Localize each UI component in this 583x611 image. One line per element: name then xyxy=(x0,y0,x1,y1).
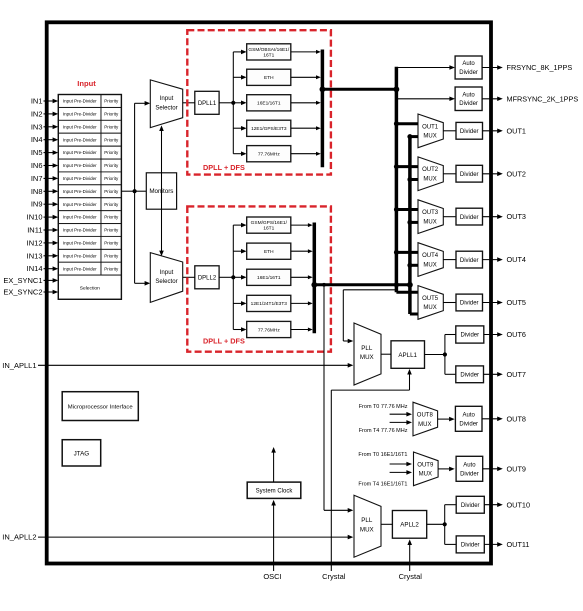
svg-text:Input Pre-Divider: Input Pre-Divider xyxy=(63,150,97,155)
svg-text:From T4 77.76 MHz: From T4 77.76 MHz xyxy=(359,428,408,434)
svg-text:IN6: IN6 xyxy=(31,161,43,170)
svg-text:PLL: PLL xyxy=(361,345,373,352)
svg-text:APLL1: APLL1 xyxy=(398,352,417,359)
svg-text:Divider: Divider xyxy=(460,471,479,477)
svg-text:OUT11: OUT11 xyxy=(507,540,530,549)
svg-text:Divider: Divider xyxy=(459,101,478,107)
svg-text:GSM/OBSAI/16E1/: GSM/OBSAI/16E1/ xyxy=(248,47,289,53)
svg-text:IN4: IN4 xyxy=(31,135,43,144)
svg-text:Priority: Priority xyxy=(104,266,119,271)
svg-text:Input Pre-Divider: Input Pre-Divider xyxy=(63,253,97,258)
svg-text:Priority: Priority xyxy=(104,112,119,117)
svg-text:12E1/GPS/E3T3: 12E1/GPS/E3T3 xyxy=(251,126,287,132)
svg-text:Priority: Priority xyxy=(104,253,119,258)
svg-text:System Clock: System Clock xyxy=(256,489,294,495)
svg-text:Input Pre-Divider: Input Pre-Divider xyxy=(63,202,97,207)
svg-text:EX_SYNC1: EX_SYNC1 xyxy=(3,276,42,285)
svg-text:OUT3: OUT3 xyxy=(422,210,439,216)
svg-text:IN9: IN9 xyxy=(31,200,43,209)
svg-text:Crystal: Crystal xyxy=(399,572,423,581)
svg-text:MUX: MUX xyxy=(423,177,436,183)
svg-text:MUX: MUX xyxy=(423,305,436,311)
svg-text:MUX: MUX xyxy=(423,262,436,268)
svg-text:IN14: IN14 xyxy=(27,264,43,273)
svg-text:Input Pre-Divider: Input Pre-Divider xyxy=(63,163,97,168)
svg-text:OUT4: OUT4 xyxy=(422,253,439,259)
svg-text:MUX: MUX xyxy=(418,422,431,428)
svg-text:Input Pre-Divider: Input Pre-Divider xyxy=(63,99,97,104)
svg-text:Priority: Priority xyxy=(104,124,119,129)
svg-text:DPLL2: DPLL2 xyxy=(198,276,217,282)
svg-text:OUT3: OUT3 xyxy=(507,212,526,221)
svg-text:OUT7: OUT7 xyxy=(507,370,526,379)
svg-text:From T4 16E1/16T1: From T4 16E1/16T1 xyxy=(358,482,407,488)
svg-text:OUT1: OUT1 xyxy=(422,124,439,130)
svg-text:MUX: MUX xyxy=(360,526,374,533)
svg-text:Auto: Auto xyxy=(462,92,475,98)
svg-text:Priority: Priority xyxy=(104,241,119,246)
svg-text:From T0 16E1/16T1: From T0 16E1/16T1 xyxy=(358,452,407,458)
svg-text:MUX: MUX xyxy=(419,472,432,478)
svg-text:IN5: IN5 xyxy=(31,148,43,157)
svg-text:Divider: Divider xyxy=(460,129,479,135)
svg-text:IN10: IN10 xyxy=(27,213,43,222)
svg-text:Priority: Priority xyxy=(104,202,119,207)
svg-text:Selector: Selector xyxy=(155,278,177,285)
svg-text:Priority: Priority xyxy=(104,215,119,220)
svg-text:Input Pre-Divider: Input Pre-Divider xyxy=(63,176,97,181)
svg-text:OUT5: OUT5 xyxy=(507,298,526,307)
svg-text:FRSYNC_8K_1PPS: FRSYNC_8K_1PPS xyxy=(507,63,573,72)
svg-text:DPLL1: DPLL1 xyxy=(198,101,217,107)
svg-text:MUX: MUX xyxy=(423,134,436,140)
svg-text:OUT9: OUT9 xyxy=(507,464,526,473)
svg-text:Priority: Priority xyxy=(104,137,119,142)
svg-text:77.76MHz: 77.76MHz xyxy=(258,327,280,333)
svg-text:OUT4: OUT4 xyxy=(507,255,526,264)
svg-text:Input: Input xyxy=(160,269,174,276)
svg-text:IN8: IN8 xyxy=(31,187,43,196)
svg-text:Priority: Priority xyxy=(104,163,119,168)
svg-text:Divider: Divider xyxy=(461,543,480,549)
svg-text:OUT1: OUT1 xyxy=(507,126,526,135)
svg-text:Input Pre-Divider: Input Pre-Divider xyxy=(63,266,97,271)
svg-text:OUT5: OUT5 xyxy=(422,296,439,302)
svg-text:Input: Input xyxy=(160,95,174,102)
svg-text:Priority: Priority xyxy=(104,176,119,181)
svg-text:OUT6: OUT6 xyxy=(507,330,526,339)
svg-text:Priority: Priority xyxy=(104,99,119,104)
svg-text:Input: Input xyxy=(77,79,96,88)
svg-text:Microprocessor Interface: Microprocessor Interface xyxy=(68,405,134,411)
svg-text:Input Pre-Divider: Input Pre-Divider xyxy=(63,137,97,142)
svg-text:Divider: Divider xyxy=(461,503,480,509)
svg-text:IN3: IN3 xyxy=(31,122,43,131)
svg-text:APLL2: APLL2 xyxy=(400,522,419,529)
svg-text:DPLL + DFS: DPLL + DFS xyxy=(203,337,245,346)
svg-text:Divider: Divider xyxy=(460,172,479,178)
svg-text:Input Pre-Divider: Input Pre-Divider xyxy=(63,215,97,220)
svg-text:IN11: IN11 xyxy=(27,226,42,235)
svg-text:Auto: Auto xyxy=(463,463,476,469)
svg-text:16E1/16T1: 16E1/16T1 xyxy=(257,275,281,281)
svg-text:Input Pre-Divider: Input Pre-Divider xyxy=(63,241,97,246)
svg-text:16T1: 16T1 xyxy=(263,226,274,232)
svg-text:Auto: Auto xyxy=(463,413,476,419)
svg-text:IN13: IN13 xyxy=(27,251,43,260)
svg-text:IN_APLL2: IN_APLL2 xyxy=(2,533,36,542)
svg-text:Divider: Divider xyxy=(459,421,478,427)
svg-text:Selection: Selection xyxy=(80,286,100,292)
svg-text:OUT10: OUT10 xyxy=(507,500,531,509)
svg-text:Divider: Divider xyxy=(460,301,479,307)
svg-text:Divider: Divider xyxy=(460,258,479,264)
svg-text:OUT2: OUT2 xyxy=(422,167,439,173)
svg-text:16E1/16T1: 16E1/16T1 xyxy=(257,101,281,107)
svg-text:From T0 77.76 MHz: From T0 77.76 MHz xyxy=(359,404,408,410)
svg-text:PLL: PLL xyxy=(361,517,373,524)
svg-text:OUT8: OUT8 xyxy=(417,413,434,419)
svg-text:Input Pre-Divider: Input Pre-Divider xyxy=(63,124,97,129)
svg-text:Monitors: Monitors xyxy=(149,188,173,195)
svg-text:OUT9: OUT9 xyxy=(417,462,434,468)
svg-text:12E1/24T1/E3T3: 12E1/24T1/E3T3 xyxy=(251,301,288,307)
svg-text:Input Pre-Divider: Input Pre-Divider xyxy=(63,112,97,117)
svg-text:Input Pre-Divider: Input Pre-Divider xyxy=(63,189,97,194)
svg-text:EX_SYNC2: EX_SYNC2 xyxy=(3,288,42,297)
svg-text:MFRSYNC_2K_1PPS: MFRSYNC_2K_1PPS xyxy=(507,94,579,103)
svg-text:JTAG: JTAG xyxy=(74,450,90,457)
svg-text:Auto: Auto xyxy=(462,61,475,67)
svg-text:IN12: IN12 xyxy=(27,238,43,247)
svg-text:DPLL + DFS: DPLL + DFS xyxy=(203,163,245,172)
svg-text:MUX: MUX xyxy=(423,219,436,225)
svg-text:MUX: MUX xyxy=(360,354,374,361)
svg-text:ETH: ETH xyxy=(264,75,274,81)
svg-text:Crystal: Crystal xyxy=(322,572,346,581)
svg-text:IN_APLL1: IN_APLL1 xyxy=(2,361,36,370)
svg-text:16T1: 16T1 xyxy=(263,52,274,58)
svg-text:IN1: IN1 xyxy=(31,97,43,106)
svg-text:Priority: Priority xyxy=(104,150,119,155)
svg-text:77.76MHz: 77.76MHz xyxy=(258,152,280,158)
svg-text:OUT8: OUT8 xyxy=(507,414,526,423)
svg-text:GSM/GPS/16E1/: GSM/GPS/16E1/ xyxy=(251,220,288,226)
svg-text:OUT2: OUT2 xyxy=(507,169,526,178)
svg-text:Selector: Selector xyxy=(155,104,177,111)
svg-text:Divider: Divider xyxy=(459,70,478,76)
svg-text:ETH: ETH xyxy=(264,249,274,255)
svg-text:Divider: Divider xyxy=(460,373,479,379)
svg-text:IN7: IN7 xyxy=(31,174,43,183)
svg-text:OSCI: OSCI xyxy=(263,572,281,581)
svg-text:Divider: Divider xyxy=(460,215,479,221)
svg-text:Input Pre-Divider: Input Pre-Divider xyxy=(63,228,97,233)
svg-text:Divider: Divider xyxy=(460,333,479,339)
svg-text:IN2: IN2 xyxy=(31,109,43,118)
svg-text:Priority: Priority xyxy=(104,189,119,194)
svg-text:Priority: Priority xyxy=(104,228,119,233)
